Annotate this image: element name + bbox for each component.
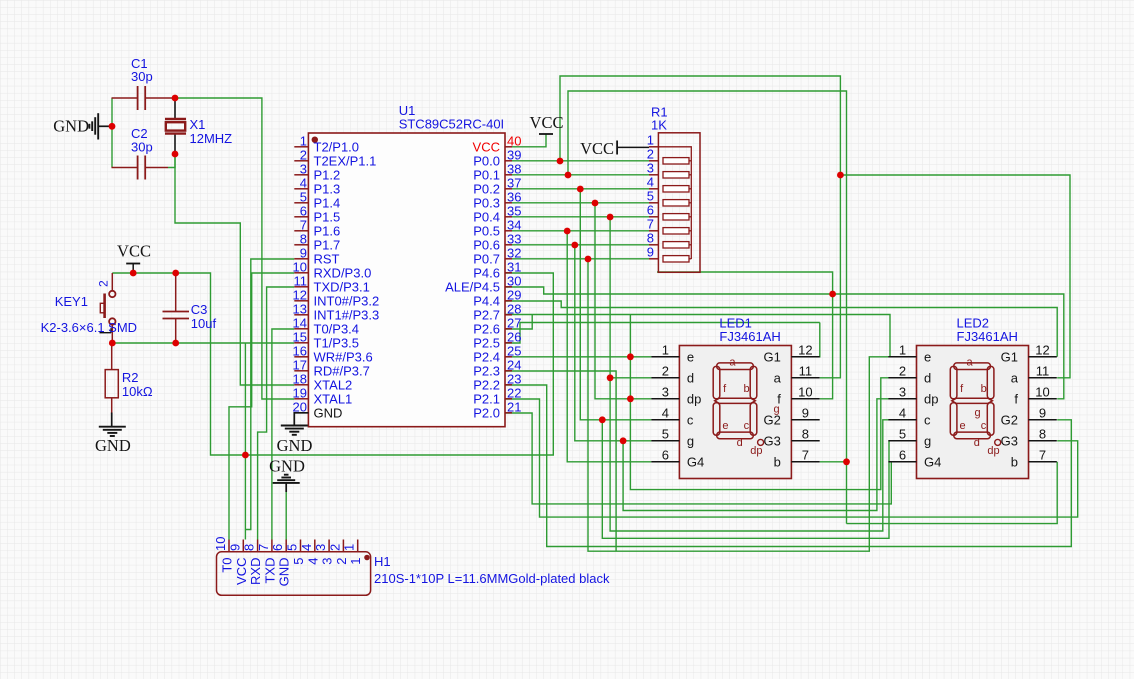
svg-text:3: 3	[647, 160, 654, 175]
wire LED1 pin3 stub from dot	[630, 398, 651, 400]
R1 pin 1	[649, 146, 658, 148]
svg-text:10: 10	[293, 259, 307, 274]
H1 pin 2	[342, 540, 344, 552]
H1 pin 5	[300, 540, 302, 552]
H1 pin1 marker dot	[364, 555, 370, 561]
wire P0.0 branch up over to segment-a drop	[560, 76, 840, 175]
svg-text:9: 9	[802, 405, 809, 420]
wire P2.4 pin25 straight to LED1 pin1 dot	[505, 356, 630, 358]
svg-text:7: 7	[647, 216, 654, 231]
LED2 left pin 4 c	[888, 419, 916, 421]
svg-text:INT1#/P3.3: INT1#/P3.3	[314, 308, 380, 323]
svg-text:P1.7: P1.7	[314, 238, 341, 253]
svg-text:26: 26	[507, 329, 521, 344]
U1 left pin 16 WR#/P3.6	[294, 356, 308, 358]
svg-text:f: f	[1014, 392, 1018, 407]
wire LED1 pin2 branch down bundle y=531 to LED2 pin4	[610, 378, 889, 531]
svg-text:FJ3461AH: FJ3461AH	[719, 329, 780, 344]
R1 resistor element 9	[663, 256, 689, 262]
svg-text:g: g	[687, 434, 694, 449]
svg-text:K2-3.6×6.1 SMD: K2-3.6×6.1 SMD	[41, 320, 137, 335]
wire VCC to IC pin40	[512, 134, 546, 147]
H1 pin 9	[242, 540, 244, 552]
svg-text:21: 21	[507, 399, 521, 414]
seg d	[717, 432, 754, 439]
U1 left pin 4 P1.3	[294, 188, 308, 190]
U1 left pin 8 P1.7	[294, 244, 308, 246]
U1 right pin 39 P0.0	[505, 160, 512, 162]
svg-text:T2EX/P1.1: T2EX/P1.1	[314, 154, 377, 169]
svg-text:2: 2	[327, 544, 342, 551]
LED2 left pin 5 g	[888, 440, 916, 442]
wire P0.5 row IC pin34 to R1 pin7	[512, 230, 649, 232]
svg-text:23: 23	[507, 371, 521, 386]
U1 right pin 25 P2.4	[505, 356, 512, 358]
svg-text:30p: 30p	[131, 140, 153, 155]
svg-text:11: 11	[799, 363, 813, 378]
svg-text:P1.6: P1.6	[314, 224, 341, 239]
seg f	[950, 366, 957, 398]
svg-text:10: 10	[798, 384, 812, 399]
wire LED1 pin1 stub from dot	[630, 356, 651, 358]
LED2 right pin 11 a	[1029, 377, 1057, 379]
svg-text:2: 2	[662, 363, 669, 378]
LED1 right pin 7 b	[791, 461, 819, 463]
svg-text:1: 1	[662, 342, 669, 357]
svg-text:P0.5: P0.5	[473, 224, 500, 239]
svg-text:6: 6	[899, 447, 906, 462]
wire KEY1 bottom / R2 / C3 bottom to IC T1 pin15 (y=343)	[112, 342, 294, 344]
wire VCC rail to KEY1/C3 (y=273) and down to long rail y=455	[112, 273, 553, 455]
U1 right pin 23 P2.2	[505, 384, 512, 386]
svg-text:GND: GND	[277, 558, 292, 587]
svg-text:ALE/P4.5: ALE/P4.5	[445, 280, 500, 295]
U1 right pin 33 P0.6	[505, 244, 512, 246]
U1 right pin 32 P0.7	[505, 258, 512, 260]
svg-text:5: 5	[300, 189, 307, 204]
svg-text:KEY1: KEY1	[55, 294, 88, 309]
svg-text:GND: GND	[95, 436, 131, 455]
svg-text:d: d	[924, 371, 931, 386]
wire crystal top node to XTAL1 drop (x=261.9)	[175, 98, 294, 399]
U1 right pin 26 P2.5	[505, 342, 512, 344]
LED2 left pin 2 d	[888, 377, 916, 379]
svg-text:5: 5	[647, 188, 654, 203]
svg-text:P0.6: P0.6	[473, 238, 500, 253]
seg a	[717, 363, 754, 370]
svg-text:VCC: VCC	[580, 139, 614, 158]
svg-text:dp: dp	[987, 445, 999, 457]
U1 left pin 19 XTAL1	[294, 398, 308, 400]
svg-text:X1: X1	[190, 117, 206, 132]
wire GND symbol to H1 pin 6	[285, 492, 287, 540]
R1 pin 9	[649, 258, 658, 260]
svg-text:c: c	[744, 420, 750, 432]
svg-text:12: 12	[293, 287, 307, 302]
svg-text:25: 25	[507, 343, 521, 358]
wire P0.1 row IC pin38 to R1 pin3	[512, 174, 649, 176]
svg-text:G3: G3	[1001, 434, 1018, 449]
svg-text:P4.6: P4.6	[473, 266, 500, 281]
wire P0.0 row IC pin39 to R1 pin2	[512, 160, 649, 162]
H1 pin 7	[271, 540, 273, 552]
svg-text:VCC: VCC	[473, 140, 500, 155]
svg-text:5: 5	[285, 544, 300, 551]
svg-text:4: 4	[899, 405, 906, 420]
svg-text:STC89C52RC-40I: STC89C52RC-40I	[399, 117, 505, 132]
seg g	[715, 398, 756, 403]
svg-text:10uf: 10uf	[191, 316, 217, 331]
svg-text:RXD: RXD	[248, 558, 263, 585]
U1 left pin 3 P1.2	[294, 174, 308, 176]
wire P0.7 down to bundle y=551.2 to LED2 pin1 join	[588, 259, 889, 551]
svg-text:2: 2	[334, 558, 349, 565]
LED1 left pin 1 e	[651, 356, 679, 358]
capacitor C2	[112, 167, 138, 169]
wire C1 left to C2 left vertical	[111, 98, 113, 168]
ground GND left of crystal	[97, 113, 99, 139]
wire P2.0 pin21 to bundle y=503.9 to LED2 pin6 G4	[505, 413, 891, 504]
svg-text:e: e	[924, 350, 931, 365]
ground below R2	[111, 413, 113, 427]
svg-text:33: 33	[507, 231, 521, 246]
svg-text:12: 12	[798, 342, 812, 357]
svg-text:dp: dp	[924, 392, 938, 407]
svg-text:R2: R2	[122, 370, 139, 385]
U1 right pin 28 P2.7	[505, 314, 512, 316]
wire LED1 pin7 b stub to junction	[820, 461, 847, 463]
svg-text:GND: GND	[53, 117, 89, 136]
capacitor C1	[112, 97, 138, 99]
svg-text:P1.4: P1.4	[314, 196, 341, 211]
svg-text:VCC: VCC	[530, 113, 564, 132]
svg-text:P1.3: P1.3	[314, 182, 341, 197]
svg-text:12: 12	[1035, 342, 1049, 357]
svg-text:13: 13	[293, 301, 307, 316]
wire segment-a down to LED1 pin11	[820, 175, 841, 378]
svg-text:11: 11	[294, 273, 308, 288]
svg-text:RST: RST	[314, 252, 340, 267]
svg-text:4: 4	[647, 174, 654, 189]
svg-text:dp: dp	[687, 392, 701, 407]
svg-text:2: 2	[300, 147, 307, 162]
svg-text:C3: C3	[191, 302, 208, 317]
svg-text:GND: GND	[269, 456, 305, 475]
R1 resistor element 7	[663, 228, 689, 234]
wire P0.3 row IC pin36 to R1 pin5	[512, 202, 649, 204]
svg-text:P1.2: P1.2	[314, 168, 341, 183]
U1 right pin 22 P2.1	[505, 398, 512, 400]
wire segment-a horizontal to LED2 pin11	[840, 175, 1070, 378]
svg-text:XTAL1: XTAL1	[314, 392, 353, 407]
H1 pin 6	[285, 540, 287, 552]
svg-text:1: 1	[647, 132, 654, 147]
svg-text:3: 3	[300, 161, 307, 176]
wire P0.1 branch up over to segment-b long drop	[568, 91, 847, 524]
svg-text:4: 4	[305, 558, 320, 565]
R1 resistor element 4	[663, 186, 689, 192]
seg d	[954, 432, 991, 439]
svg-text:28: 28	[507, 301, 521, 316]
svg-text:10: 10	[1035, 384, 1049, 399]
svg-text:g: g	[924, 434, 931, 449]
LED1 left pin 4 c	[651, 419, 679, 421]
wire RST pin9 to rail and H1 pin9	[245, 259, 294, 530]
svg-text:e: e	[722, 420, 728, 432]
svg-text:3: 3	[662, 384, 669, 399]
seg c	[987, 403, 994, 435]
svg-text:g: g	[773, 404, 779, 416]
svg-text:G2: G2	[1001, 413, 1018, 428]
7-segment display LED2 body	[917, 346, 1029, 479]
R1 pin 7	[649, 230, 658, 232]
svg-text:27: 27	[507, 315, 521, 330]
wire T0 pin14 to H1 pin 7	[272, 329, 294, 540]
svg-text:4: 4	[662, 405, 669, 420]
svg-text:39: 39	[507, 147, 521, 162]
svg-text:INT0#/P3.2: INT0#/P3.2	[314, 294, 380, 309]
U1 left pin 18 XTAL2	[294, 384, 308, 386]
svg-text:b: b	[1011, 455, 1018, 470]
wire P0.6 down to LED1 pin5 g row	[575, 245, 652, 441]
U1 left pin 2 T2EX/P1.1	[294, 160, 308, 162]
LED2 right pin 8 G3	[1029, 440, 1057, 442]
svg-text:a: a	[966, 357, 973, 369]
svg-text:8: 8	[1039, 426, 1046, 441]
svg-text:b: b	[981, 383, 987, 395]
wire P2.3 pin24 to drop x=616.1	[505, 371, 616, 551]
svg-text:6: 6	[647, 202, 654, 217]
svg-text:5: 5	[662, 426, 669, 441]
seg g	[952, 398, 993, 403]
svg-text:VCC: VCC	[117, 242, 151, 261]
svg-text:P0.4: P0.4	[473, 210, 500, 225]
svg-text:RXD/P3.0: RXD/P3.0	[314, 266, 372, 281]
svg-text:7: 7	[802, 447, 809, 462]
U1 left pin 15 T1/P3.5	[294, 342, 308, 344]
svg-text:a: a	[774, 371, 782, 386]
LED2 right pin 10 f	[1029, 398, 1057, 400]
svg-text:35: 35	[507, 203, 521, 218]
svg-text:P2.1: P2.1	[473, 392, 500, 407]
U1 left pin 7 P1.6	[294, 230, 308, 232]
LED2 left pin 6 G4	[888, 461, 916, 463]
LED2 right pin 9 G2	[1029, 419, 1057, 421]
svg-text:8: 8	[242, 544, 257, 551]
svg-text:RD#/P3.7: RD#/P3.7	[314, 364, 370, 379]
svg-text:14: 14	[293, 315, 307, 330]
svg-text:b: b	[744, 383, 750, 395]
svg-text:c: c	[981, 420, 987, 432]
svg-text:P0.1: P0.1	[473, 168, 500, 183]
svg-text:P1.5: P1.5	[314, 210, 341, 225]
seg b	[750, 366, 757, 398]
svg-text:P0.2: P0.2	[473, 182, 500, 197]
wire C2 right lead riser to crystal bottom node	[168, 154, 175, 168]
wire f branch continue to LED1 pin10 stub	[820, 294, 833, 399]
seg e	[950, 403, 957, 435]
svg-text:WR#/P3.6: WR#/P3.6	[314, 350, 373, 365]
wire KEY node drop to H1 pin 9	[244, 343, 246, 540]
svg-text:GND: GND	[277, 436, 313, 455]
svg-text:40: 40	[507, 133, 521, 148]
U1 left pin 5 P1.4	[294, 202, 308, 204]
LED1 right pin 8 G3	[791, 440, 819, 442]
U1 left pin 9 RST	[294, 258, 308, 260]
wire P0.6 row IC pin33 to R1 pin8	[512, 244, 649, 246]
svg-text:36: 36	[507, 189, 521, 204]
capacitor C3	[175, 273, 177, 312]
R1 resistor element 2	[663, 158, 689, 164]
U1 right pin 27 P2.6	[505, 328, 512, 330]
wire segment-f branch down to LED1 pin10	[657, 272, 833, 294]
wire P0.2 row IC pin37 to R1 pin4	[512, 188, 649, 190]
svg-text:P2.2: P2.2	[473, 378, 500, 393]
R1 resistor element 3	[663, 172, 689, 178]
svg-text:6: 6	[300, 203, 307, 218]
svg-text:b: b	[774, 455, 781, 470]
U1 left pin 13 INT1#/P3.3	[294, 314, 308, 316]
svg-text:a: a	[729, 357, 736, 369]
wire P0.3 down to LED1 pin3 dp row	[595, 203, 630, 399]
svg-text:1: 1	[899, 342, 906, 357]
wire P0.4 down to LED1 pin2 d row	[610, 217, 651, 378]
svg-text:22: 22	[507, 385, 521, 400]
U1 left pin 1 T2/P1.0	[294, 146, 308, 148]
svg-text:P2.0: P2.0	[473, 406, 500, 421]
svg-text:H1: H1	[374, 554, 391, 569]
svg-text:38: 38	[507, 161, 521, 176]
svg-text:P2.6: P2.6	[473, 322, 500, 337]
connector H1 body	[217, 552, 371, 596]
U1 right pin 29 P4.4	[505, 300, 512, 302]
svg-text:29: 29	[507, 287, 521, 302]
R1 internal common bus	[658, 147, 691, 259]
svg-text:16: 16	[293, 343, 307, 358]
svg-text:5: 5	[291, 558, 306, 565]
H1 pin 1	[357, 540, 359, 552]
LED1 left pin 2 d	[651, 377, 679, 379]
svg-text:GND: GND	[314, 406, 343, 421]
R1 pin 8	[649, 244, 658, 246]
svg-text:9: 9	[647, 244, 654, 259]
LED1 right pin 10 f	[791, 398, 819, 400]
svg-text:c: c	[687, 413, 694, 428]
7-segment display LED1 body	[679, 346, 791, 479]
U1 left pin 10 RXD/P3.0	[294, 272, 308, 274]
seg c	[750, 403, 757, 435]
wire e vertical through LED1 pin1/pin3 down to bundle y=489.6 to LED2 pin2	[630, 315, 889, 490]
wire P0.4 row IC pin35 to R1 pin6	[512, 216, 649, 218]
svg-text:19: 19	[293, 385, 307, 400]
wire crystal bottom node to XTAL2 drop (x=240.3)	[175, 154, 294, 385]
svg-text:11: 11	[1036, 363, 1050, 378]
seg e	[713, 403, 720, 435]
U1 right pin 35 P0.4	[505, 216, 512, 218]
svg-text:5: 5	[899, 426, 906, 441]
U1 left pin 12 INT0#/P3.2	[294, 300, 308, 302]
svg-text:210S-1*10P L=11.6MMGold-plated: 210S-1*10P L=11.6MMGold-plated black	[374, 571, 610, 586]
LED2 right pin 12 G1	[1029, 356, 1057, 358]
wire P2.1 pin22 to bundle y=517.1 to LED2 pin8 G3	[505, 399, 1078, 517]
svg-text:17: 17	[293, 357, 307, 372]
svg-text:FJ3461AH: FJ3461AH	[957, 329, 1018, 344]
svg-text:1: 1	[300, 133, 307, 148]
svg-text:1K: 1K	[651, 118, 667, 133]
LED1 right pin 9 G2	[791, 419, 819, 421]
svg-text:6: 6	[662, 447, 669, 462]
wire P0.7 row IC pin32 to R1 pin9	[512, 258, 649, 260]
U1 left pin 17 RD#/P3.7	[294, 370, 308, 372]
svg-text:dp: dp	[750, 445, 762, 457]
svg-text:d: d	[974, 437, 980, 449]
LED1 left pin 6 G4	[651, 461, 679, 463]
U1 left pin 20 GND	[294, 412, 308, 414]
svg-text:c: c	[924, 413, 931, 428]
svg-text:9: 9	[300, 245, 307, 260]
LED2 right pin 7 b	[1029, 461, 1057, 463]
svg-text:G1: G1	[764, 350, 781, 365]
seg f	[713, 366, 720, 398]
wire LED1 pin4 c into stub	[602, 419, 651, 421]
U1 right pin 24 P2.3	[505, 370, 512, 372]
svg-text:15: 15	[293, 329, 307, 344]
wire P2.2 pin23 to bundle y=546.5 to LED2 pin9 G2	[505, 385, 1071, 547]
svg-text:P2.5: P2.5	[473, 336, 500, 351]
R1 pin 3	[649, 174, 658, 176]
svg-text:9: 9	[1039, 405, 1046, 420]
U1 right pin 21 P2.0	[505, 412, 512, 414]
U1 right pin 34 P0.5	[505, 230, 512, 232]
svg-text:P2.4: P2.4	[473, 350, 500, 365]
resistor network R1 body	[658, 133, 700, 272]
H1 pin 3	[328, 540, 330, 552]
svg-text:e: e	[687, 350, 694, 365]
svg-text:10kΩ: 10kΩ	[122, 384, 153, 399]
svg-text:e: e	[959, 420, 965, 432]
U1 left pin 11 TXD/P3.1	[294, 286, 308, 288]
svg-text:7: 7	[300, 217, 307, 232]
svg-text:g: g	[974, 407, 980, 419]
U1 right pin 36 P0.3	[505, 202, 512, 204]
svg-text:P0.3: P0.3	[473, 196, 500, 211]
wire P0.2 down to LED1 pin4 c row	[580, 189, 602, 420]
ground symbol above H1 (flipped)	[284, 474, 289, 476]
svg-text:12MHZ: 12MHZ	[190, 131, 233, 146]
R1 resistor element 8	[663, 242, 689, 248]
svg-text:4: 4	[300, 175, 307, 190]
R1 pin 6	[649, 216, 658, 218]
wire TXD pin11 to H1 pin 8	[258, 287, 295, 540]
svg-text:2: 2	[97, 280, 111, 287]
wire P0.5 down to LED1 pin6 G4 row	[567, 231, 651, 462]
U1 right pin 31 P4.6	[505, 272, 512, 274]
U1 right pin 37 P0.2	[505, 188, 512, 190]
wire segment-f top: ALE pin30 jog to long line y=294 to LED2 pin10	[505, 287, 1064, 399]
U1 right pin 40 VCC	[505, 146, 512, 148]
H1 pin 8	[257, 540, 259, 552]
svg-text:4: 4	[299, 544, 314, 551]
svg-text:P0.7: P0.7	[473, 252, 500, 267]
svg-text:d: d	[737, 437, 743, 449]
svg-text:TXD/P3.1: TXD/P3.1	[314, 280, 370, 295]
svg-text:P2.7: P2.7	[473, 308, 500, 323]
seg a	[954, 363, 991, 370]
svg-text:VCC: VCC	[234, 558, 249, 585]
svg-text:2: 2	[647, 146, 654, 161]
svg-text:37: 37	[507, 175, 521, 190]
svg-text:3: 3	[320, 558, 335, 565]
